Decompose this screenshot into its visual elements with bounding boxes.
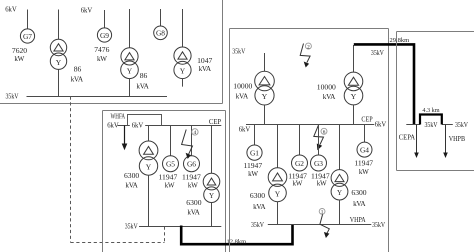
svg-text:kW: kW <box>293 181 304 188</box>
wire VHPA T2 feed <box>339 125 341 170</box>
svg-text:G6: G6 <box>187 160 196 169</box>
wire VHPA T1 feed <box>277 125 279 168</box>
svg-text:11947: 11947 <box>354 158 373 167</box>
svg-text:G7: G7 <box>23 32 32 41</box>
svg-text:11947: 11947 <box>243 161 262 170</box>
bus 35kV VHPA <box>268 224 372 226</box>
transformer VHPA T2 (delta/Y) 6300 kVA <box>331 170 348 200</box>
generator G9 <box>97 28 111 42</box>
wire feeder T1 <box>58 10 60 40</box>
wire CEP T2 to 6kV bus <box>353 105 355 125</box>
svg-text:kVA: kVA <box>353 201 366 208</box>
svg-text:kVA: kVA <box>236 94 249 101</box>
box right top edge <box>397 31 474 33</box>
svg-text:10000: 10000 <box>317 83 336 92</box>
svg-text:35kV: 35kV <box>372 221 385 229</box>
generator G5 <box>163 156 179 172</box>
svg-text:kW: kW <box>97 56 108 63</box>
wire CEP T1 feed <box>264 53 266 71</box>
wire G4 feed <box>364 125 366 143</box>
svg-text:6: 6 <box>323 130 326 136</box>
svg-text:VHPA: VHPA <box>350 216 367 224</box>
wire CEP T1 to 6kV bus <box>264 105 266 125</box>
svg-text:WHFA: WHFA <box>111 112 126 120</box>
load arrow CEPA <box>414 125 419 159</box>
box right bottom edge <box>397 170 474 172</box>
bus 6kV CEP <box>246 124 374 126</box>
box WHFA top edge <box>103 110 226 112</box>
svg-text:Y: Y <box>275 189 281 198</box>
svg-text:86: 86 <box>140 71 148 80</box>
svg-text:11947: 11947 <box>182 172 201 181</box>
bus 35kV CEPA segment <box>406 124 420 126</box>
wire G2 feed <box>299 125 301 156</box>
fault bolt 2 <box>300 43 311 67</box>
svg-text:kVA: kVA <box>199 66 212 73</box>
svg-text:G1: G1 <box>250 149 259 158</box>
svg-text:2: 2 <box>307 44 310 50</box>
svg-text:kVA: kVA <box>253 204 266 211</box>
svg-text:VHPB: VHPB <box>449 135 466 143</box>
bus 6kV WHFA <box>118 125 222 127</box>
svg-text:35kV: 35kV <box>425 121 438 129</box>
transformer T1 (delta/Y) <box>50 39 66 69</box>
wire G3 feed <box>318 125 320 156</box>
transformer T2 (delta/Y) <box>121 48 139 79</box>
box CEP top edge <box>230 28 389 30</box>
fault bolt 6 on G3 feed <box>314 126 327 151</box>
svg-text:CEPA: CEPA <box>399 134 416 142</box>
svg-text:6kV: 6kV <box>375 120 387 128</box>
svg-text:4: 4 <box>194 130 197 136</box>
svg-text:29.8km: 29.8km <box>390 37 410 44</box>
svg-text:6300: 6300 <box>186 198 201 207</box>
svg-text:Y: Y <box>127 66 133 75</box>
wire CEP T2 feed from 29.8km line <box>353 45 355 72</box>
svg-text:kW: kW <box>188 182 199 189</box>
svg-text:kW: kW <box>248 171 259 178</box>
transmission line 4.3km (thick bridge) <box>420 115 442 125</box>
svg-text:6300: 6300 <box>124 171 139 180</box>
svg-text:11947: 11947 <box>288 171 307 180</box>
box WHFA left edge <box>102 111 104 252</box>
generator G7 <box>20 29 34 43</box>
svg-text:86: 86 <box>74 65 82 74</box>
svg-text:kW: kW <box>165 182 176 189</box>
transmission line 29.8km (thick) <box>354 44 414 124</box>
transformer CEP T2 (delta/Y) 10000 kVA <box>344 72 363 105</box>
generator G8 <box>154 26 168 40</box>
svg-text:Y: Y <box>262 92 268 101</box>
wire dashed vertical to WHFA 35kV bus <box>164 227 166 243</box>
bus 35kV WHFA <box>139 226 221 228</box>
generator G1 <box>247 145 262 160</box>
wire feeder G7 <box>27 10 29 29</box>
transformer CEP T1 (delta/Y) 10000 kVA <box>255 71 275 105</box>
transformer WHFA T (delta/Y) <box>139 141 158 175</box>
wire WHFA T feed <box>148 126 150 142</box>
bus 35kV station1 <box>27 96 168 98</box>
svg-text:1047: 1047 <box>197 56 212 65</box>
svg-text:G2: G2 <box>295 159 304 168</box>
svg-text:Y: Y <box>351 92 357 101</box>
wire feeder T2 <box>129 9 131 48</box>
box WHFA right edge <box>225 111 227 252</box>
svg-text:G8: G8 <box>156 29 165 38</box>
box station1 right edge <box>222 0 224 104</box>
svg-text:G4: G4 <box>360 146 369 155</box>
box right left edge <box>396 32 398 171</box>
svg-text:CEP: CEP <box>209 118 221 126</box>
svg-text:35kV: 35kV <box>371 49 384 57</box>
svg-text:G9: G9 <box>100 31 109 40</box>
svg-text:kW: kW <box>317 181 328 188</box>
svg-text:kVA: kVA <box>187 210 200 217</box>
load arrow WHFA <box>122 126 128 151</box>
svg-text:4.3 km: 4.3 km <box>422 107 439 114</box>
svg-text:6kV: 6kV <box>81 7 93 15</box>
svg-text:10000: 10000 <box>233 82 252 91</box>
generator G3 <box>311 155 327 171</box>
node 6kV label WHFA mid <box>130 121 145 130</box>
wire T2 to 35kV bus <box>129 79 131 97</box>
svg-text:35kV: 35kV <box>232 48 245 56</box>
transformer T3 (delta/Y) <box>174 47 191 79</box>
svg-text:kVA: kVA <box>125 183 138 190</box>
wire T1 to 35kV bus <box>58 69 60 96</box>
box CEP left edge <box>229 29 231 252</box>
svg-text:35kV: 35kV <box>251 221 264 229</box>
wire T3 stub <box>182 79 184 87</box>
bus 35kV VHPB segment <box>442 124 453 126</box>
wire WHFA T2 to 35kV bus <box>211 203 213 227</box>
svg-text:Y: Y <box>146 163 152 172</box>
svg-text:Y: Y <box>209 192 214 200</box>
wire VHPA T1 to 35kV bus <box>277 202 279 225</box>
generator G4 <box>357 142 372 157</box>
wire WHFA T2 feed <box>211 126 213 174</box>
wire WHFA T to 35kV bus <box>148 175 150 226</box>
svg-text:6kV: 6kV <box>132 121 144 129</box>
fault bolt 4 <box>182 129 198 159</box>
breaker loop WHFA <box>128 115 162 126</box>
svg-text:35kV: 35kV <box>455 121 468 129</box>
wire G5 feed <box>170 126 172 156</box>
svg-text:35kV: 35kV <box>6 93 19 101</box>
transformer VHPA T1 (delta/Y) 6300 kVA <box>268 168 287 202</box>
svg-text:6300: 6300 <box>351 188 366 197</box>
transmission line 12.8km (thick) <box>181 225 292 245</box>
svg-text:6kV: 6kV <box>5 6 17 14</box>
svg-text:Y: Y <box>180 67 186 76</box>
wire feeder T3 <box>182 9 184 47</box>
wire VHPA T2 to 35kV bus <box>339 200 341 225</box>
svg-text:kVA: kVA <box>71 77 84 84</box>
svg-text:11947: 11947 <box>311 171 330 180</box>
svg-text:Y: Y <box>337 189 342 197</box>
svg-text:G5: G5 <box>166 160 175 169</box>
load arrow VHPB <box>443 125 448 159</box>
transformer WHFA T2 (delta/Y) <box>203 173 220 202</box>
box station1 bottom edge <box>0 103 223 105</box>
svg-text:6kV: 6kV <box>239 126 251 134</box>
svg-text:kW: kW <box>359 169 370 176</box>
svg-text:6300: 6300 <box>250 191 265 200</box>
wire G1 feed <box>254 125 256 146</box>
svg-text:6kV: 6kV <box>107 121 119 129</box>
box CEP right edge <box>388 29 390 252</box>
svg-text:CEP: CEP <box>361 116 372 124</box>
svg-text:kW: kW <box>14 56 25 63</box>
svg-text:11947: 11947 <box>159 172 178 181</box>
svg-text:35kV: 35kV <box>125 222 138 230</box>
svg-text:G3: G3 <box>314 159 323 168</box>
wire feeder G9 <box>104 10 106 28</box>
svg-text:Y: Y <box>56 58 62 67</box>
svg-text:kVA: kVA <box>136 83 149 90</box>
wire dashed vertical from 35kV bus <box>70 97 72 243</box>
wire G6 feed <box>191 126 193 156</box>
generator G6 <box>184 156 200 172</box>
svg-text:7476: 7476 <box>94 45 109 54</box>
fault bolt 1 on VHPA bus <box>319 209 329 239</box>
svg-text:7620: 7620 <box>12 46 27 55</box>
svg-text:kVA: kVA <box>323 94 336 101</box>
wire dashed horizontal <box>71 242 165 244</box>
wire feeder G8 <box>160 9 162 26</box>
generator G2 <box>292 155 308 171</box>
